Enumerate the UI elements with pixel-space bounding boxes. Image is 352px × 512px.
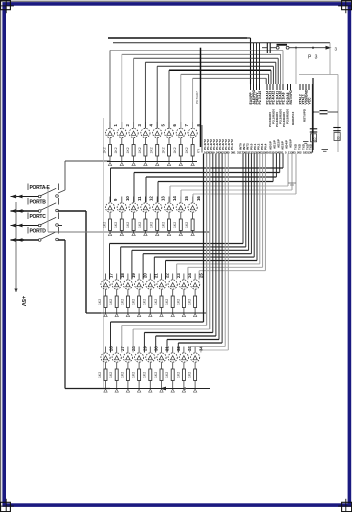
- resistor R32: [171, 369, 174, 381]
- rail row3: [101, 312, 207, 314]
- svg-text:1K2: 1K2: [143, 372, 147, 378]
- rail junction Q20: [137, 314, 140, 317]
- wire base Q9: [109, 197, 111, 203]
- transistor Q33: [179, 353, 188, 362]
- svg-text:1K2: 1K2: [188, 372, 192, 378]
- svg-text:1K2: 1K2: [98, 299, 102, 305]
- wire bus3 v3L: [131, 250, 133, 279]
- wire PORTB to row3 rail: [86, 312, 101, 314]
- wire bus4 v4R: [212, 154, 214, 333]
- wire emitter Q15: [180, 212, 182, 219]
- rail row4 arrow: [160, 387, 166, 391]
- wire emitter Q19: [127, 289, 129, 296]
- resistor R2: [120, 145, 123, 157]
- wire PORTA-E diag: [58, 190, 65, 193]
- svg-text:PORTB: PORTB: [30, 200, 47, 206]
- corner mark top-left: [0, 0, 10, 9]
- svg-text:1K2: 1K2: [154, 372, 158, 378]
- svg-text:P3.5/RXD0: P3.5/RXD0: [285, 109, 289, 124]
- wire bus2 v2R: [279, 154, 281, 173]
- svg-text:VCC: VCC: [308, 97, 312, 105]
- switch S1: [38, 195, 41, 198]
- page left edge line: [0, 0, 2, 512]
- wire bus4 v9R: [227, 154, 229, 351]
- rail junction Q2: [120, 163, 123, 166]
- wire bus1 v6R: [270, 70, 272, 84]
- wire PORTC right: [58, 225, 62, 227]
- svg-text:1K2: 1K2: [173, 147, 177, 153]
- wire emitter Q6: [168, 138, 170, 145]
- resistor R5: [156, 145, 159, 157]
- resistor R27: [115, 369, 118, 381]
- transistor Q16: [188, 203, 197, 212]
- wire bus1 v8R: [265, 78, 267, 84]
- svg-text:1K2: 1K2: [102, 147, 106, 153]
- gray long vertical: [103, 118, 105, 388]
- rail row4: [65, 388, 210, 390]
- wire bus3 h4: [143, 253, 251, 255]
- wire bus2 v3L: [145, 177, 147, 202]
- svg-text:TXD: TXD: [308, 143, 312, 150]
- wire bus2 v1L: [110, 168, 112, 202]
- wire c1 drop: [282, 51, 284, 85]
- transistor Q6: [164, 128, 173, 137]
- resistor R26: [104, 369, 107, 381]
- wire gray loop v: [337, 75, 339, 153]
- rail junction Q14: [167, 233, 170, 236]
- wire PORTA-E up: [64, 161, 66, 190]
- wire bus3 v7L: [176, 264, 178, 280]
- svg-text:1K2: 1K2: [188, 299, 192, 305]
- resistor R16: [191, 219, 194, 231]
- svg-text:30: 30: [336, 136, 340, 140]
- transistor Q24: [179, 280, 188, 289]
- resistor R10: [120, 219, 123, 231]
- wire PORTD down: [64, 240, 66, 389]
- corner mark bottom-right: [342, 502, 352, 511]
- wire bus2 h3: [146, 176, 276, 178]
- wire bus1 h6: [169, 69, 271, 71]
- +5V arrow: [14, 289, 17, 293]
- wire bus4 h9: [201, 349, 228, 351]
- wire bus1 v7L: [180, 74, 182, 128]
- transistor Q32: [168, 353, 177, 362]
- wire bus1 v8L: [192, 78, 194, 128]
- svg-text:1K2: 1K2: [109, 372, 113, 378]
- wire c2 base up: [121, 54, 123, 128]
- resistor R34: [194, 369, 197, 381]
- resistor R23: [171, 296, 174, 308]
- svg-text:1K2: 1K2: [176, 299, 180, 305]
- IC U1 left edge: [201, 125, 203, 153]
- resistor R21: [149, 296, 152, 308]
- svg-text:P2.7/A15: P2.7/A15: [258, 91, 262, 105]
- wire PORTC left: [16, 225, 39, 227]
- transistor Q15: [176, 203, 185, 212]
- rail junction Q17: [104, 314, 107, 317]
- wire bus1 h5: [157, 65, 273, 67]
- transistor Q23: [168, 280, 177, 289]
- svg-text:PORTD: PORTD: [30, 229, 47, 235]
- wire emitter Q24: [183, 289, 185, 296]
- wire bus4 h4: [144, 332, 212, 334]
- wire emitter Q33: [183, 362, 185, 369]
- resistor R19: [126, 296, 129, 308]
- transistor Q30: [146, 353, 155, 362]
- transistor Q17: [101, 280, 110, 289]
- wire bus2 v5R: [287, 154, 289, 187]
- ground mark right1: [303, 141, 309, 143]
- rail junction Q22: [160, 314, 163, 317]
- svg-text:RXD/P3.0: RXD/P3.0: [291, 111, 295, 125]
- svg-text:10: 10: [313, 137, 317, 141]
- wire base Q16: [192, 197, 194, 203]
- switch S4: [38, 239, 41, 242]
- wire c2 bus: [122, 53, 281, 55]
- rail junction Q11: [132, 233, 135, 236]
- svg-text:16: 16: [196, 196, 201, 201]
- wire emitter Q23: [172, 289, 174, 296]
- resistor R30: [149, 369, 152, 381]
- svg-text:1K2: 1K2: [161, 147, 165, 153]
- svg-text:1K2: 1K2: [150, 147, 154, 153]
- wire base Q21: [149, 274, 151, 280]
- wire emitter Q28: [127, 362, 129, 369]
- wire base Q30: [149, 347, 151, 353]
- wire bus2 v4R: [272, 154, 274, 182]
- wire top thick drop: [250, 38, 252, 84]
- wire base Q33: [183, 347, 185, 353]
- wire emitter Q34: [194, 362, 196, 369]
- wire emitter Q31: [161, 362, 163, 369]
- wire PORTD to row4 rail: [65, 388, 110, 390]
- transistor Q9: [105, 203, 114, 212]
- svg-text:12: 12: [149, 196, 154, 201]
- rail junction Q24: [182, 314, 185, 317]
- wire emitter Q22: [161, 289, 163, 296]
- wire PORTB right: [58, 210, 86, 212]
- resistor R1: [109, 145, 112, 157]
- wire emitter Q29: [138, 362, 140, 369]
- resistor R12: [144, 219, 147, 231]
- wire bus3 v1R: [242, 154, 244, 244]
- wire bus2 h1: [111, 167, 284, 169]
- wire bus1 h3: [134, 57, 279, 59]
- wire bus1 v6L: [168, 70, 170, 128]
- wire bus1 v7R: [268, 74, 270, 84]
- wire base Q29: [138, 347, 140, 353]
- wire base Q12: [144, 197, 146, 203]
- rail junction Q26: [104, 389, 107, 392]
- wire base Q7: [180, 122, 182, 128]
- svg-text:1K2: 1K2: [176, 372, 180, 378]
- wire bus1 v3R: [277, 58, 279, 84]
- wire bus2 v5L: [169, 186, 171, 202]
- wire bus2 v3R: [275, 154, 277, 178]
- resistor R11: [132, 219, 135, 231]
- wire base Q20: [138, 274, 140, 280]
- wire emitter Q20: [138, 289, 140, 296]
- resistor R28: [126, 369, 129, 381]
- rail junction Q12: [144, 233, 147, 236]
- wire emitter Q11: [133, 212, 135, 219]
- transistor Q8: [188, 128, 197, 137]
- wire emitter Q14: [168, 212, 170, 219]
- rail junction Q28: [126, 389, 129, 392]
- wire base Q31: [161, 347, 163, 353]
- svg-text:1K2: 1K2: [161, 222, 165, 228]
- wire emitter Q27: [116, 362, 118, 369]
- rail junction Q16: [191, 233, 194, 236]
- svg-text:1K2: 1K2: [114, 222, 118, 228]
- svg-text:11: 11: [137, 196, 142, 201]
- wire base Q10: [121, 197, 123, 203]
- svg-text:RST/VPD: RST/VPD: [289, 90, 293, 105]
- resistor R15: [179, 219, 182, 231]
- wire c2 drop: [280, 54, 282, 84]
- resistor R18: [115, 296, 118, 308]
- capacitor C1: [310, 128, 317, 130]
- svg-text:P1.1/T2: P1.1/T2: [230, 139, 234, 150]
- corner mark top-right: [342, 0, 352, 9]
- rail junction Q15: [179, 233, 182, 236]
- wire PORTD left: [16, 239, 39, 241]
- wire bus3 v7R: [259, 154, 261, 264]
- svg-text:1K2: 1K2: [132, 372, 136, 378]
- resistor R25: [194, 296, 197, 308]
- wire base Q26: [105, 347, 107, 353]
- wire bus2 v7R: [295, 154, 297, 195]
- wire bus4 v6L: [166, 340, 168, 353]
- wire ic top feeds: [253, 43, 255, 84]
- svg-text:1K2: 1K2: [120, 299, 124, 305]
- junction dot PORTC: [15, 225, 17, 227]
- wire emitter Q8: [192, 138, 194, 145]
- wire emitter Q4: [144, 138, 146, 145]
- svg-text:1K2: 1K2: [109, 299, 113, 305]
- svg-text:10: 10: [125, 196, 130, 201]
- wire bus4 v5L: [155, 336, 157, 353]
- wire gray v3: [295, 48, 297, 84]
- transistor Q11: [129, 203, 138, 212]
- svg-text:+5V: +5V: [20, 296, 26, 307]
- svg-text:1K2: 1K2: [165, 372, 169, 378]
- resistor R13: [156, 219, 159, 231]
- wire emitter Q32: [172, 362, 174, 369]
- svg-text:1K2: 1K2: [154, 299, 158, 305]
- resonator pin2: [286, 46, 289, 49]
- rail junction Q4: [144, 163, 147, 166]
- transistor Q20: [135, 280, 144, 289]
- wire base Q24: [183, 274, 185, 280]
- wire base Q18: [116, 274, 118, 280]
- wire bus4 v1L: [110, 322, 112, 353]
- wire emitter Q16: [192, 212, 194, 219]
- resistor R31: [160, 369, 163, 381]
- transistor Q34: [191, 353, 200, 362]
- junction dot PORTA-E: [15, 196, 17, 198]
- wire P.3 right: [296, 47, 328, 49]
- wire bus2 h2: [134, 172, 280, 174]
- wire base Q2: [121, 122, 123, 128]
- transistor Q29: [135, 353, 144, 362]
- svg-text:1K2: 1K2: [138, 222, 142, 228]
- resistor R8: [191, 145, 194, 157]
- wire bus1 v4L: [144, 62, 146, 128]
- wire bus3 v3R: [248, 154, 250, 251]
- wire bus4 v1R: [203, 154, 205, 323]
- rail junction Q29: [137, 389, 140, 392]
- wire c1 bus: [110, 50, 283, 52]
- resistor R6: [168, 145, 171, 157]
- svg-text:1K2: 1K2: [102, 222, 106, 228]
- transistor Q14: [164, 203, 173, 212]
- rail junction Q6: [167, 163, 170, 166]
- rail junction Q9: [108, 233, 111, 236]
- wire bus2 v6L: [180, 190, 182, 202]
- wire bus3 v6R: [256, 154, 258, 261]
- wire base Q19: [127, 274, 129, 280]
- svg-text:1K2: 1K2: [185, 147, 189, 153]
- wire emitter Q26: [105, 362, 107, 369]
- svg-text:13: 13: [160, 196, 165, 201]
- capacitor C2: [333, 127, 340, 129]
- rail junction Q34: [193, 389, 196, 392]
- wire bus3 v5L: [153, 257, 155, 279]
- wire bus1 v5L: [156, 66, 158, 128]
- svg-text:1K2: 1K2: [150, 222, 154, 228]
- wire bus3 h3: [132, 249, 249, 251]
- wire emitter Q9: [109, 212, 111, 219]
- wire base Q14: [168, 197, 170, 203]
- wire PORTA-E to row1 rail: [65, 160, 110, 162]
- node arrow PORTD: [11, 238, 17, 242]
- svg-text:1K2: 1K2: [126, 147, 130, 153]
- svg-text:1K2: 1K2: [98, 372, 102, 378]
- wire base Q22: [161, 274, 163, 280]
- wire PORTB down: [85, 211, 87, 313]
- wire bus2 v7L: [192, 194, 194, 202]
- wire base Q17: [105, 274, 107, 280]
- wire bus3 h9: [199, 270, 265, 272]
- wire base Q5: [156, 122, 158, 128]
- rail junction Q18: [115, 314, 118, 317]
- wire base Q25: [194, 274, 196, 280]
- svg-text:1K2: 1K2: [138, 147, 142, 153]
- wire base Q8: [192, 122, 194, 128]
- transistor Q26: [101, 353, 110, 362]
- wire gray loop h: [299, 74, 338, 76]
- wire bus2 v2L: [133, 173, 135, 203]
- ground mark right2: [322, 149, 329, 151]
- wire bus1 v3L: [133, 58, 135, 128]
- wire bus4 v2L: [121, 326, 123, 353]
- svg-text:39: 39: [309, 150, 313, 154]
- svg-text:26: 26: [109, 346, 114, 351]
- svg-text:P0.7/AD7: P0.7/AD7: [195, 91, 199, 104]
- wire base Q6: [168, 122, 170, 128]
- rail junction Q21: [149, 314, 152, 317]
- switch S3: [38, 224, 41, 227]
- page top edge line: [0, 0, 352, 2]
- wire bus4 v8L: [189, 347, 191, 353]
- IC U1 top pins: [250, 84, 252, 90]
- wire bus3 h2: [121, 246, 246, 248]
- wire bus2 h7: [193, 193, 296, 195]
- wire top bus2: [113, 42, 330, 44]
- wire bus1 h4: [145, 61, 275, 63]
- wire bus4 h5: [156, 335, 216, 337]
- wire cap left stub: [262, 47, 267, 49]
- resistor R7: [179, 145, 182, 157]
- node dot 1: [295, 47, 297, 49]
- wire bus3 v2L: [120, 247, 122, 280]
- wire bus2 h5: [170, 185, 288, 187]
- node arrow PORTB: [11, 209, 17, 213]
- node dot 2: [312, 47, 314, 49]
- node arrow PORTC: [11, 224, 17, 228]
- wire bus4 v5R: [215, 154, 217, 337]
- resistor R33: [182, 369, 185, 381]
- transistor Q18: [112, 280, 121, 289]
- svg-text:PORTC: PORTC: [30, 214, 47, 220]
- wire bus3 v4L: [142, 254, 144, 280]
- wire bus3 v6L: [165, 261, 167, 280]
- wire emitter Q1: [109, 138, 111, 145]
- rail junction Q3: [132, 163, 135, 166]
- wire bus4 v7R: [221, 154, 223, 344]
- wire base Q28: [127, 347, 129, 353]
- ground mark mid: [288, 182, 296, 184]
- resistor R14: [168, 219, 171, 231]
- wire PORTA-E left: [16, 196, 39, 198]
- wire emitter Q7: [180, 138, 182, 145]
- wire emitter Q30: [149, 362, 151, 369]
- wire bus3 v2R: [245, 154, 247, 247]
- capacitor CX plates: [266, 43, 268, 54]
- wire bus4 v9L: [200, 350, 202, 353]
- wire base Q15: [180, 197, 182, 203]
- rail row1: [107, 161, 197, 163]
- wire bus2 h4: [158, 181, 273, 183]
- wire bus1 h7: [181, 73, 269, 75]
- svg-text:1K2: 1K2: [165, 299, 169, 305]
- IC U1 right edge: [312, 84, 314, 153]
- svg-text:P2.1/A9: P2.1/A9: [282, 92, 286, 104]
- wire bus4 v2R: [206, 154, 208, 326]
- transistor Q21: [146, 280, 155, 289]
- wire bus2 v4L: [157, 182, 159, 203]
- wire bus4 v3L: [132, 329, 134, 353]
- svg-text:P0.4: P0.4: [263, 143, 267, 150]
- resonator pin1: [276, 46, 279, 49]
- svg-text:1K2: 1K2: [132, 299, 136, 305]
- resistor R20: [138, 296, 141, 308]
- wire top thick bus: [108, 37, 247, 39]
- wire emitter Q25: [194, 289, 196, 296]
- rail junction Q7: [179, 163, 182, 166]
- wire bus2 v6R: [291, 154, 293, 191]
- wire bus3 h1: [110, 243, 244, 245]
- wire gray xtal drop: [329, 43, 331, 75]
- rail junction Q23: [171, 314, 174, 317]
- transistor Q10: [117, 203, 126, 212]
- rail junction Q10: [120, 233, 123, 236]
- wire emitter Q3: [133, 138, 135, 145]
- resistor R22: [160, 296, 163, 308]
- wire x313: [312, 78, 314, 150]
- wire bus4 h7: [178, 342, 222, 344]
